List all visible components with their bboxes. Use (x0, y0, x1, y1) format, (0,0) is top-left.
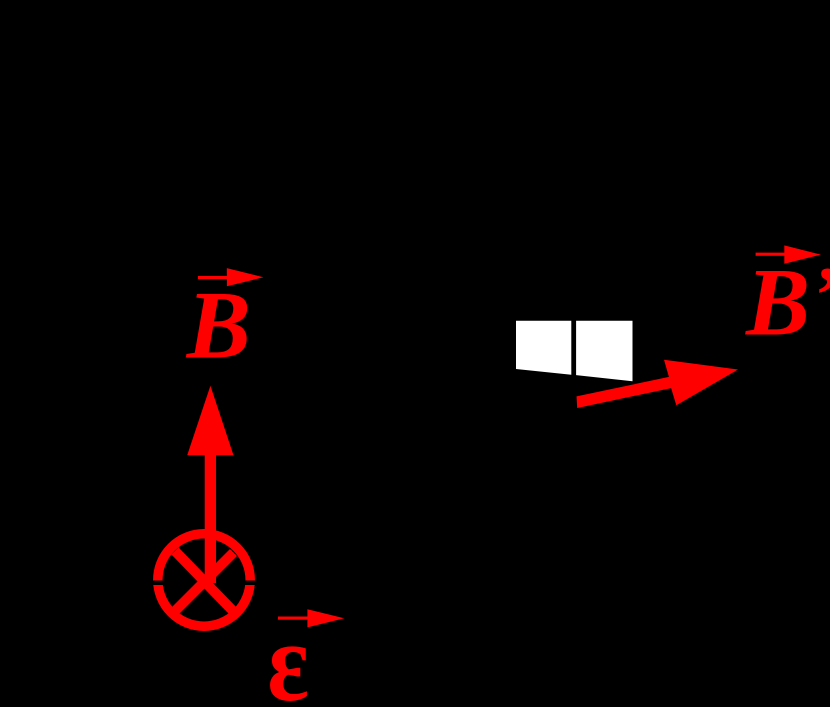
svg-text:B: B (186, 272, 251, 379)
vector arrow over B' (756, 245, 821, 263)
white pane right (576, 321, 632, 381)
vector arrow over B (198, 268, 264, 286)
svg-text:B: B (745, 249, 810, 356)
svg-text:’: ’ (814, 252, 830, 340)
flux into page symbol (circle with X) (158, 534, 250, 626)
B field arrow (up) (187, 386, 233, 583)
vector arrow over epsilon (278, 609, 344, 627)
ring gaps (151, 581, 257, 586)
white pane left (516, 321, 571, 375)
svg-text:ε: ε (267, 599, 309, 702)
velocity arrow (thick, up-right) (577, 360, 739, 408)
